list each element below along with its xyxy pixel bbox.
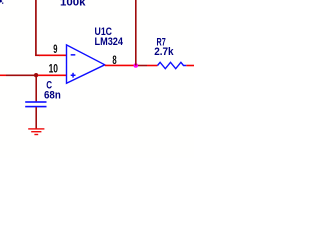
junction dot — [34, 73, 38, 77]
wire W2 horizontal to pin 9 — [35, 54, 40, 56]
pin leg 9 (bright) — [39, 54, 66, 56]
junction dot magenta — [134, 63, 139, 68]
wire W10 junction to capacitor — [35, 75, 37, 101]
wire W1 vertical left — [35, 0, 37, 55]
op-amp minus sign — [71, 54, 76, 56]
wire W4a left edge stub (bright) — [0, 74, 6, 76]
wire W4 horizontal to junction — [6, 74, 35, 76]
wire W7 junction to resistor — [138, 65, 147, 67]
resistor R7 right leg (bright) — [186, 65, 194, 67]
wire W11 capacitor to ground — [35, 107, 37, 128]
op-amp plus sign — [71, 73, 76, 78]
pin leg 10 (bright) — [38, 74, 66, 76]
op-amp U1C triangle — [67, 45, 105, 83]
svg-text:LM324: LM324 — [95, 36, 124, 48]
pin leg 8 output (bright) — [105, 64, 134, 66]
ground bar 2 — [31, 131, 41, 132]
ground bar 3 — [34, 134, 38, 135]
svg-text:68n: 68n — [44, 89, 61, 101]
svg-text:9: 9 — [53, 44, 57, 56]
svg-text:100k: 100k — [60, 0, 86, 9]
capacitor C top plate — [25, 101, 46, 103]
wire W6 vertical right — [135, 0, 137, 66]
svg-text:2.7k: 2.7k — [154, 46, 174, 58]
ground bar 1 — [28, 128, 44, 129]
resistor R7 zigzag — [158, 62, 187, 68]
resistor R7 left leg (bright) — [147, 65, 158, 67]
label fragment top-left (bottom of letter k) — [0, 0, 3, 4]
svg-text:10: 10 — [49, 63, 58, 75]
capacitor C bottom plate — [25, 106, 46, 108]
